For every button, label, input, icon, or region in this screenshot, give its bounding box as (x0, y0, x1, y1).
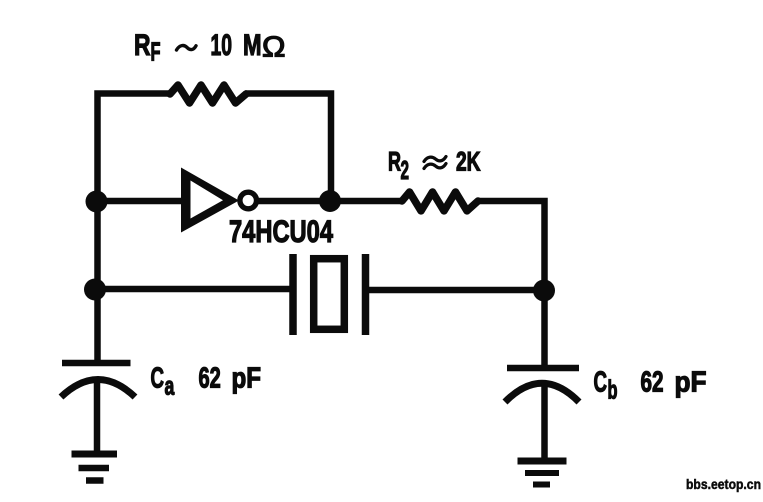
label RF ~ 10 Mohm (134, 29, 286, 67)
node B (crystal left junction) (84, 279, 106, 301)
svg-text:R: R (134, 29, 151, 62)
svg-text:62: 62 (641, 367, 664, 399)
wire: inverter input (94, 198, 184, 205)
node D (crystal right junction) (533, 280, 555, 302)
capacitor Cb top plate (507, 365, 579, 372)
svg-text:a: a (165, 371, 175, 401)
svg-text:10: 10 (211, 29, 233, 62)
wire: node B to crystal left plate (94, 286, 293, 293)
svg-text:R: R (388, 147, 401, 177)
svg-text:pF: pF (675, 367, 707, 399)
crystal Y1 body (314, 259, 345, 330)
wire: Ca to ground (94, 378, 101, 454)
node A (inverter input junction) (86, 191, 108, 213)
resistor R2 (402, 192, 478, 211)
svg-text:C: C (151, 363, 165, 395)
capacitor Ca curved plate (61, 380, 135, 398)
wire: crystal right plate to node D (366, 287, 547, 294)
svg-text:2K: 2K (456, 147, 481, 177)
capacitor Cb curved plate (505, 383, 579, 402)
svg-text:bbs.eetop.cn: bbs.eetop.cn (686, 477, 761, 492)
crystal Y1 right plate (362, 254, 370, 335)
svg-text:b: b (608, 375, 618, 405)
wire: left rail (feedback top-left corner down to Ca) (98, 94, 172, 362)
inverter U1 triangle (181, 168, 239, 233)
wire: R2 to right rail (477, 201, 545, 366)
capacitor Ca top plate (62, 360, 131, 367)
label Ca 62 pF (151, 363, 262, 401)
svg-text:Ω: Ω (262, 32, 286, 64)
svg-text:2: 2 (401, 155, 410, 185)
svg-text:62: 62 (199, 363, 221, 395)
svg-text:M: M (243, 29, 262, 62)
ground (Ca) (72, 454, 118, 481)
label R2 ~= 2K (388, 147, 481, 186)
wire: Cb to ground (541, 383, 548, 461)
svg-text:pF: pF (232, 363, 262, 395)
wire: inverter output to R2 (257, 198, 403, 205)
svg-text:C: C (594, 367, 608, 399)
label Cb 62 pF (594, 367, 707, 405)
resistor RF (170, 85, 246, 103)
node C (inverter output junction) (319, 190, 341, 212)
ground (Cb) (518, 461, 567, 485)
crystal Y1 left plate (289, 254, 297, 335)
wire: feedback loop right vertical (RF to inverter output) (245, 94, 331, 202)
svg-text:F: F (151, 37, 161, 67)
inverter U1 output bubble (240, 192, 257, 209)
svg-text:74HCU04: 74HCU04 (229, 213, 333, 249)
